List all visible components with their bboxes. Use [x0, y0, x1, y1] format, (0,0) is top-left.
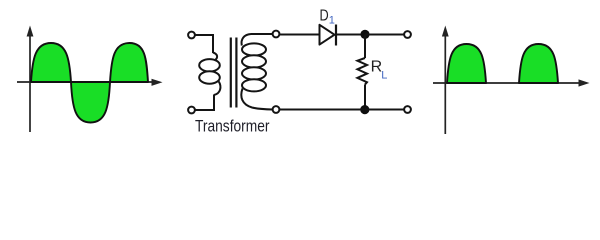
- wire: top node to output terminal: [365, 34, 404, 36]
- junction node bottom: [360, 105, 369, 114]
- resistor RL zigzag: [357, 58, 367, 85]
- transformer secondary winding loop 4: [242, 79, 266, 91]
- transformer core line 1: [230, 38, 232, 108]
- wire: primary coil to bottom terminal: [195, 95, 214, 111]
- svg-text:L: L: [381, 69, 387, 81]
- output rectified hump 1: [447, 44, 486, 83]
- transformer primary coil exit hook: [214, 82, 220, 96]
- label RL: [371, 58, 388, 81]
- output terminal top: [404, 31, 411, 38]
- svg-text:D: D: [320, 8, 329, 25]
- wire: primary top terminal to coil: [195, 35, 213, 53]
- transformer primary coil entry hook: [213, 53, 217, 61]
- transformer primary winding loop 1: [199, 59, 220, 71]
- diode D1 cathode bar: [335, 25, 337, 46]
- output rectified hump 2: [519, 44, 558, 83]
- wire: resistor to bottom node: [364, 85, 366, 110]
- transformer secondary coil entry hook: [242, 34, 251, 46]
- transformer secondary top terminal: [273, 31, 280, 38]
- input waveform x-axis: [17, 79, 163, 86]
- wire: top node down to resistor: [364, 35, 366, 59]
- input waveform y-axis: [27, 26, 34, 133]
- wire: secondary top terminal to diode anode: [279, 34, 319, 36]
- wire: secondary bottom terminal to bottom node: [279, 109, 364, 111]
- transformer primary winding loop 2: [199, 71, 220, 83]
- wire: diode cathode to top node: [337, 34, 365, 36]
- label D1: [320, 8, 335, 27]
- input sine wave (full AC, green filled): [31, 43, 148, 123]
- diode D1 triangle: [320, 25, 335, 45]
- svg-text:Transformer: Transformer: [195, 117, 270, 136]
- transformer secondary winding loop 2: [242, 55, 266, 67]
- svg-text:1: 1: [329, 15, 335, 27]
- transformer primary bottom terminal: [188, 107, 195, 114]
- wire: bottom node to output terminal: [365, 109, 404, 111]
- output waveform y-axis: [442, 26, 449, 135]
- junction node top (diode/resistor/output): [360, 30, 369, 39]
- transformer secondary bottom terminal: [273, 106, 280, 113]
- transformer secondary winding loop 3: [242, 67, 266, 79]
- wire: secondary top terminal lead: [251, 33, 273, 35]
- output terminal bottom: [404, 106, 411, 113]
- transformer core line 2: [235, 38, 237, 108]
- transformer secondary coil exit hook: [241, 89, 272, 110]
- output waveform x-axis: [433, 79, 590, 86]
- transformer primary top terminal: [188, 32, 195, 39]
- transformer secondary winding loop 1: [242, 43, 266, 55]
